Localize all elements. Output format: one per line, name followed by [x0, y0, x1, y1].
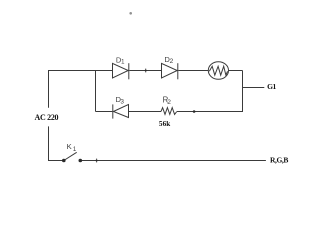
svg-text:3: 3 — [120, 98, 124, 105]
svg-text:2: 2 — [167, 99, 171, 106]
svg-text:R,G,B: R,G,B — [270, 155, 288, 164]
svg-text:2: 2 — [170, 58, 174, 65]
svg-text:56k: 56k — [159, 120, 170, 128]
svg-text:K: K — [67, 142, 72, 151]
svg-text:AC 220: AC 220 — [35, 113, 59, 122]
svg-text:G1: G1 — [267, 82, 276, 91]
